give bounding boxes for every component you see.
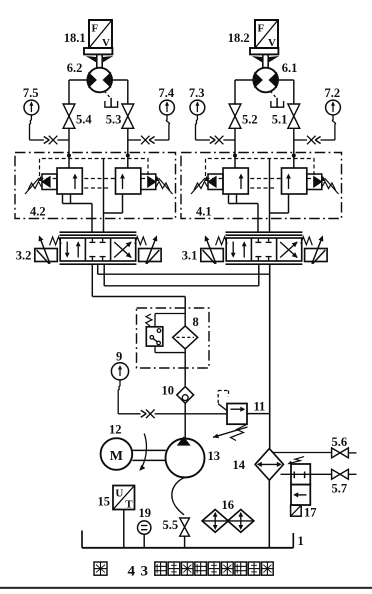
shaft coupling — [96, 54, 98, 68]
svg-text:12: 12 — [109, 423, 122, 437]
F/V converter 18.1 — [89, 20, 112, 48]
block left ports — [228, 194, 230, 204]
bypass valve — [146, 327, 163, 346]
wire A to valve — [257, 204, 259, 233]
svg-text:7.5: 7.5 — [23, 86, 39, 100]
svg-text:7.4: 7.4 — [159, 86, 175, 100]
shut-off valve 5.5 — [180, 518, 190, 536]
wire A to valve — [91, 204, 93, 233]
pilot solenoid — [42, 174, 57, 190]
svg-text:1: 1 — [298, 534, 304, 548]
adjust spring — [194, 182, 208, 191]
suction pipe — [184, 536, 186, 547]
shut-off valve 5.4 — [63, 104, 75, 116]
wire motor to left valve — [69, 79, 88, 81]
mounting plate — [84, 48, 112, 54]
manifold box 4.2 — [15, 153, 176, 219]
rail to filter — [92, 296, 185, 298]
pilot solenoid — [307, 174, 322, 190]
pressure gauge 7.5 — [24, 100, 39, 115]
relief outlet — [247, 413, 270, 415]
junction — [126, 154, 130, 158]
pressure gauge 7.4 — [160, 100, 175, 115]
relief block right of 4.2 — [127, 156, 129, 169]
bottom rule — [0, 587, 372, 589]
right proportional solenoid — [139, 249, 162, 262]
left proportional solenoid — [201, 249, 224, 262]
pilot dashed frame — [40, 159, 149, 177]
left position arrows — [232, 242, 234, 256]
test point line — [196, 139, 210, 141]
valve 17 lower — [291, 485, 310, 505]
electric motor 12 — [101, 438, 133, 470]
wire motor to right valve — [278, 79, 294, 81]
right position crossed arrows — [114, 242, 131, 258]
svg-text:T: T — [125, 499, 133, 511]
filter inlet — [184, 308, 186, 326]
svg-text:9: 9 — [116, 350, 122, 364]
right proportional solenoid — [305, 249, 328, 262]
test point line — [30, 139, 44, 141]
F/V converter 18.2 — [255, 20, 278, 48]
hydraulic motor 6.2 — [87, 68, 112, 93]
block right ports — [288, 194, 290, 213]
left proportional solenoid — [35, 249, 58, 262]
svg-text:5.6: 5.6 — [332, 435, 348, 449]
wire right valve down — [127, 128, 129, 155]
valve 17 spring — [291, 457, 305, 464]
svg-text:5.3: 5.3 — [106, 113, 122, 127]
test point line — [118, 413, 140, 415]
hydraulic pump 13 — [166, 439, 205, 478]
heater 16a — [202, 510, 228, 533]
svg-text:3.1: 3.1 — [182, 249, 198, 263]
shut-off valve 5.2 — [229, 104, 241, 116]
svg-text:19: 19 — [139, 506, 152, 520]
P port 3.2 down — [91, 264, 93, 296]
block right ports — [122, 194, 124, 213]
relief spring — [231, 425, 247, 441]
svg-text:13: 13 — [208, 449, 221, 463]
manifold box 4.1 — [181, 153, 342, 219]
line to 5.7 — [310, 473, 331, 475]
svg-text:5.2: 5.2 — [242, 113, 258, 127]
left spring — [216, 237, 228, 246]
proportional valve 3.2 — [60, 231, 137, 233]
relief block left of 4.2 — [68, 156, 70, 169]
svg-text:3: 3 — [141, 564, 149, 580]
svg-text:6.1: 6.1 — [282, 61, 298, 75]
filter box 8 — [137, 308, 210, 368]
bypass branch — [155, 313, 185, 315]
shut-off valve 5.7 — [332, 469, 340, 479]
test point line — [155, 139, 169, 141]
svg-text:4.1: 4.1 — [196, 205, 212, 219]
adjust spring — [28, 182, 42, 191]
suction hose — [172, 477, 185, 514]
heater 16b — [228, 510, 254, 533]
test point line — [321, 139, 335, 141]
pilot dashed frame — [206, 159, 315, 177]
return filter 14 — [255, 449, 283, 481]
pressure gauge 7.3 — [190, 100, 205, 115]
gauge hose — [332, 115, 335, 129]
main return line — [269, 264, 271, 448]
wire left valve down — [68, 128, 70, 155]
svg-text:10: 10 — [162, 384, 175, 398]
sensor pipe — [123, 510, 125, 548]
adjust spring — [156, 182, 170, 191]
proportional valve 3.1 — [226, 231, 303, 233]
centre position blocked ports — [91, 238, 93, 242]
junction — [233, 154, 237, 158]
left position arrows — [66, 242, 68, 256]
level pipe — [143, 534, 145, 547]
T rail — [103, 264, 105, 286]
shaft — [132, 449, 165, 451]
svg-text:18.1: 18.1 — [64, 31, 86, 45]
svg-text:18.2: 18.2 — [228, 31, 250, 45]
case drain line — [104, 91, 109, 97]
shaft coupling — [262, 54, 264, 68]
right spring — [135, 237, 147, 246]
gauge hose — [196, 115, 198, 129]
shut-off valve 5.1 — [288, 104, 300, 116]
tank — [82, 547, 293, 549]
svg-text:7.2: 7.2 — [325, 86, 341, 100]
return to tank — [268, 480, 270, 547]
relief block left of 4.1 — [234, 156, 236, 169]
pressure gauge 7.2 — [326, 100, 341, 115]
valve 17 upper — [291, 464, 310, 485]
wire right valve down — [293, 128, 295, 155]
mounting plate — [250, 48, 278, 54]
level gauge 19 — [138, 521, 151, 534]
centre position blocked ports — [257, 238, 259, 242]
branch to valve 17 — [281, 473, 292, 475]
svg-text:16: 16 — [222, 498, 235, 512]
svg-text:F: F — [258, 23, 265, 35]
wire B to valve — [103, 159, 105, 233]
bypass outlet — [154, 346, 156, 353]
hydraulic motor 6.1 — [253, 68, 278, 93]
valve 17 drain — [291, 505, 302, 516]
svg-text:14: 14 — [233, 458, 246, 472]
gauge hose — [166, 115, 169, 129]
pump pressure line — [184, 403, 186, 438]
gauge hose — [30, 115, 32, 129]
case drain line — [270, 91, 275, 97]
pilot dashed — [217, 391, 219, 404]
svg-text:4.2: 4.2 — [30, 205, 46, 219]
svg-text:8: 8 — [193, 315, 199, 329]
svg-text:17: 17 — [304, 506, 317, 520]
gauge hose — [118, 380, 120, 396]
svg-text:5.1: 5.1 — [272, 113, 288, 127]
shut-off valve 5.3 — [122, 104, 134, 116]
filter outlet — [184, 349, 186, 387]
svg-text:5.5: 5.5 — [163, 518, 179, 532]
junction — [292, 154, 296, 158]
bypass spring — [146, 314, 152, 326]
rotation arrow — [141, 434, 146, 469]
branch to 5.6 — [273, 452, 332, 454]
junction — [67, 154, 71, 158]
drain bracket — [271, 101, 284, 107]
svg-text:5.4: 5.4 — [76, 113, 92, 127]
pilot dashed link — [206, 178, 224, 180]
right spring — [301, 237, 313, 246]
svg-text:U: U — [115, 488, 123, 500]
relief valve 11 — [227, 404, 247, 425]
svg-text:6.2: 6.2 — [67, 61, 83, 75]
right position crossed arrows — [280, 242, 297, 258]
wire B to valve — [269, 159, 271, 233]
svg-text:5.7: 5.7 — [332, 482, 348, 496]
caption — [94, 562, 107, 575]
svg-text:F: F — [92, 23, 99, 35]
svg-text:15: 15 — [98, 495, 111, 509]
svg-text:4: 4 — [128, 564, 136, 580]
svg-text:7.3: 7.3 — [189, 86, 205, 100]
relief block right of 4.1 — [293, 156, 295, 169]
svg-text:M: M — [110, 449, 123, 464]
shut-off valve 5.6 — [332, 448, 340, 458]
block left ports — [62, 194, 64, 204]
adjust spring — [322, 182, 336, 191]
svg-text:11: 11 — [254, 400, 266, 414]
pilot dashed link — [40, 178, 58, 180]
A rail — [97, 264, 99, 274]
filter element — [173, 326, 198, 349]
pilot solenoid — [141, 174, 156, 190]
wire motor to right valve — [112, 79, 128, 81]
wire motor to left valve — [235, 79, 254, 81]
wire left valve down — [234, 128, 236, 155]
pressure gauge 9 — [111, 363, 128, 380]
svg-text:3.2: 3.2 — [16, 249, 32, 263]
pilot solenoid — [208, 174, 223, 190]
left spring — [50, 237, 62, 246]
check valve 10 — [177, 387, 194, 404]
transducer 15 — [113, 486, 135, 510]
drain bracket — [105, 101, 118, 107]
